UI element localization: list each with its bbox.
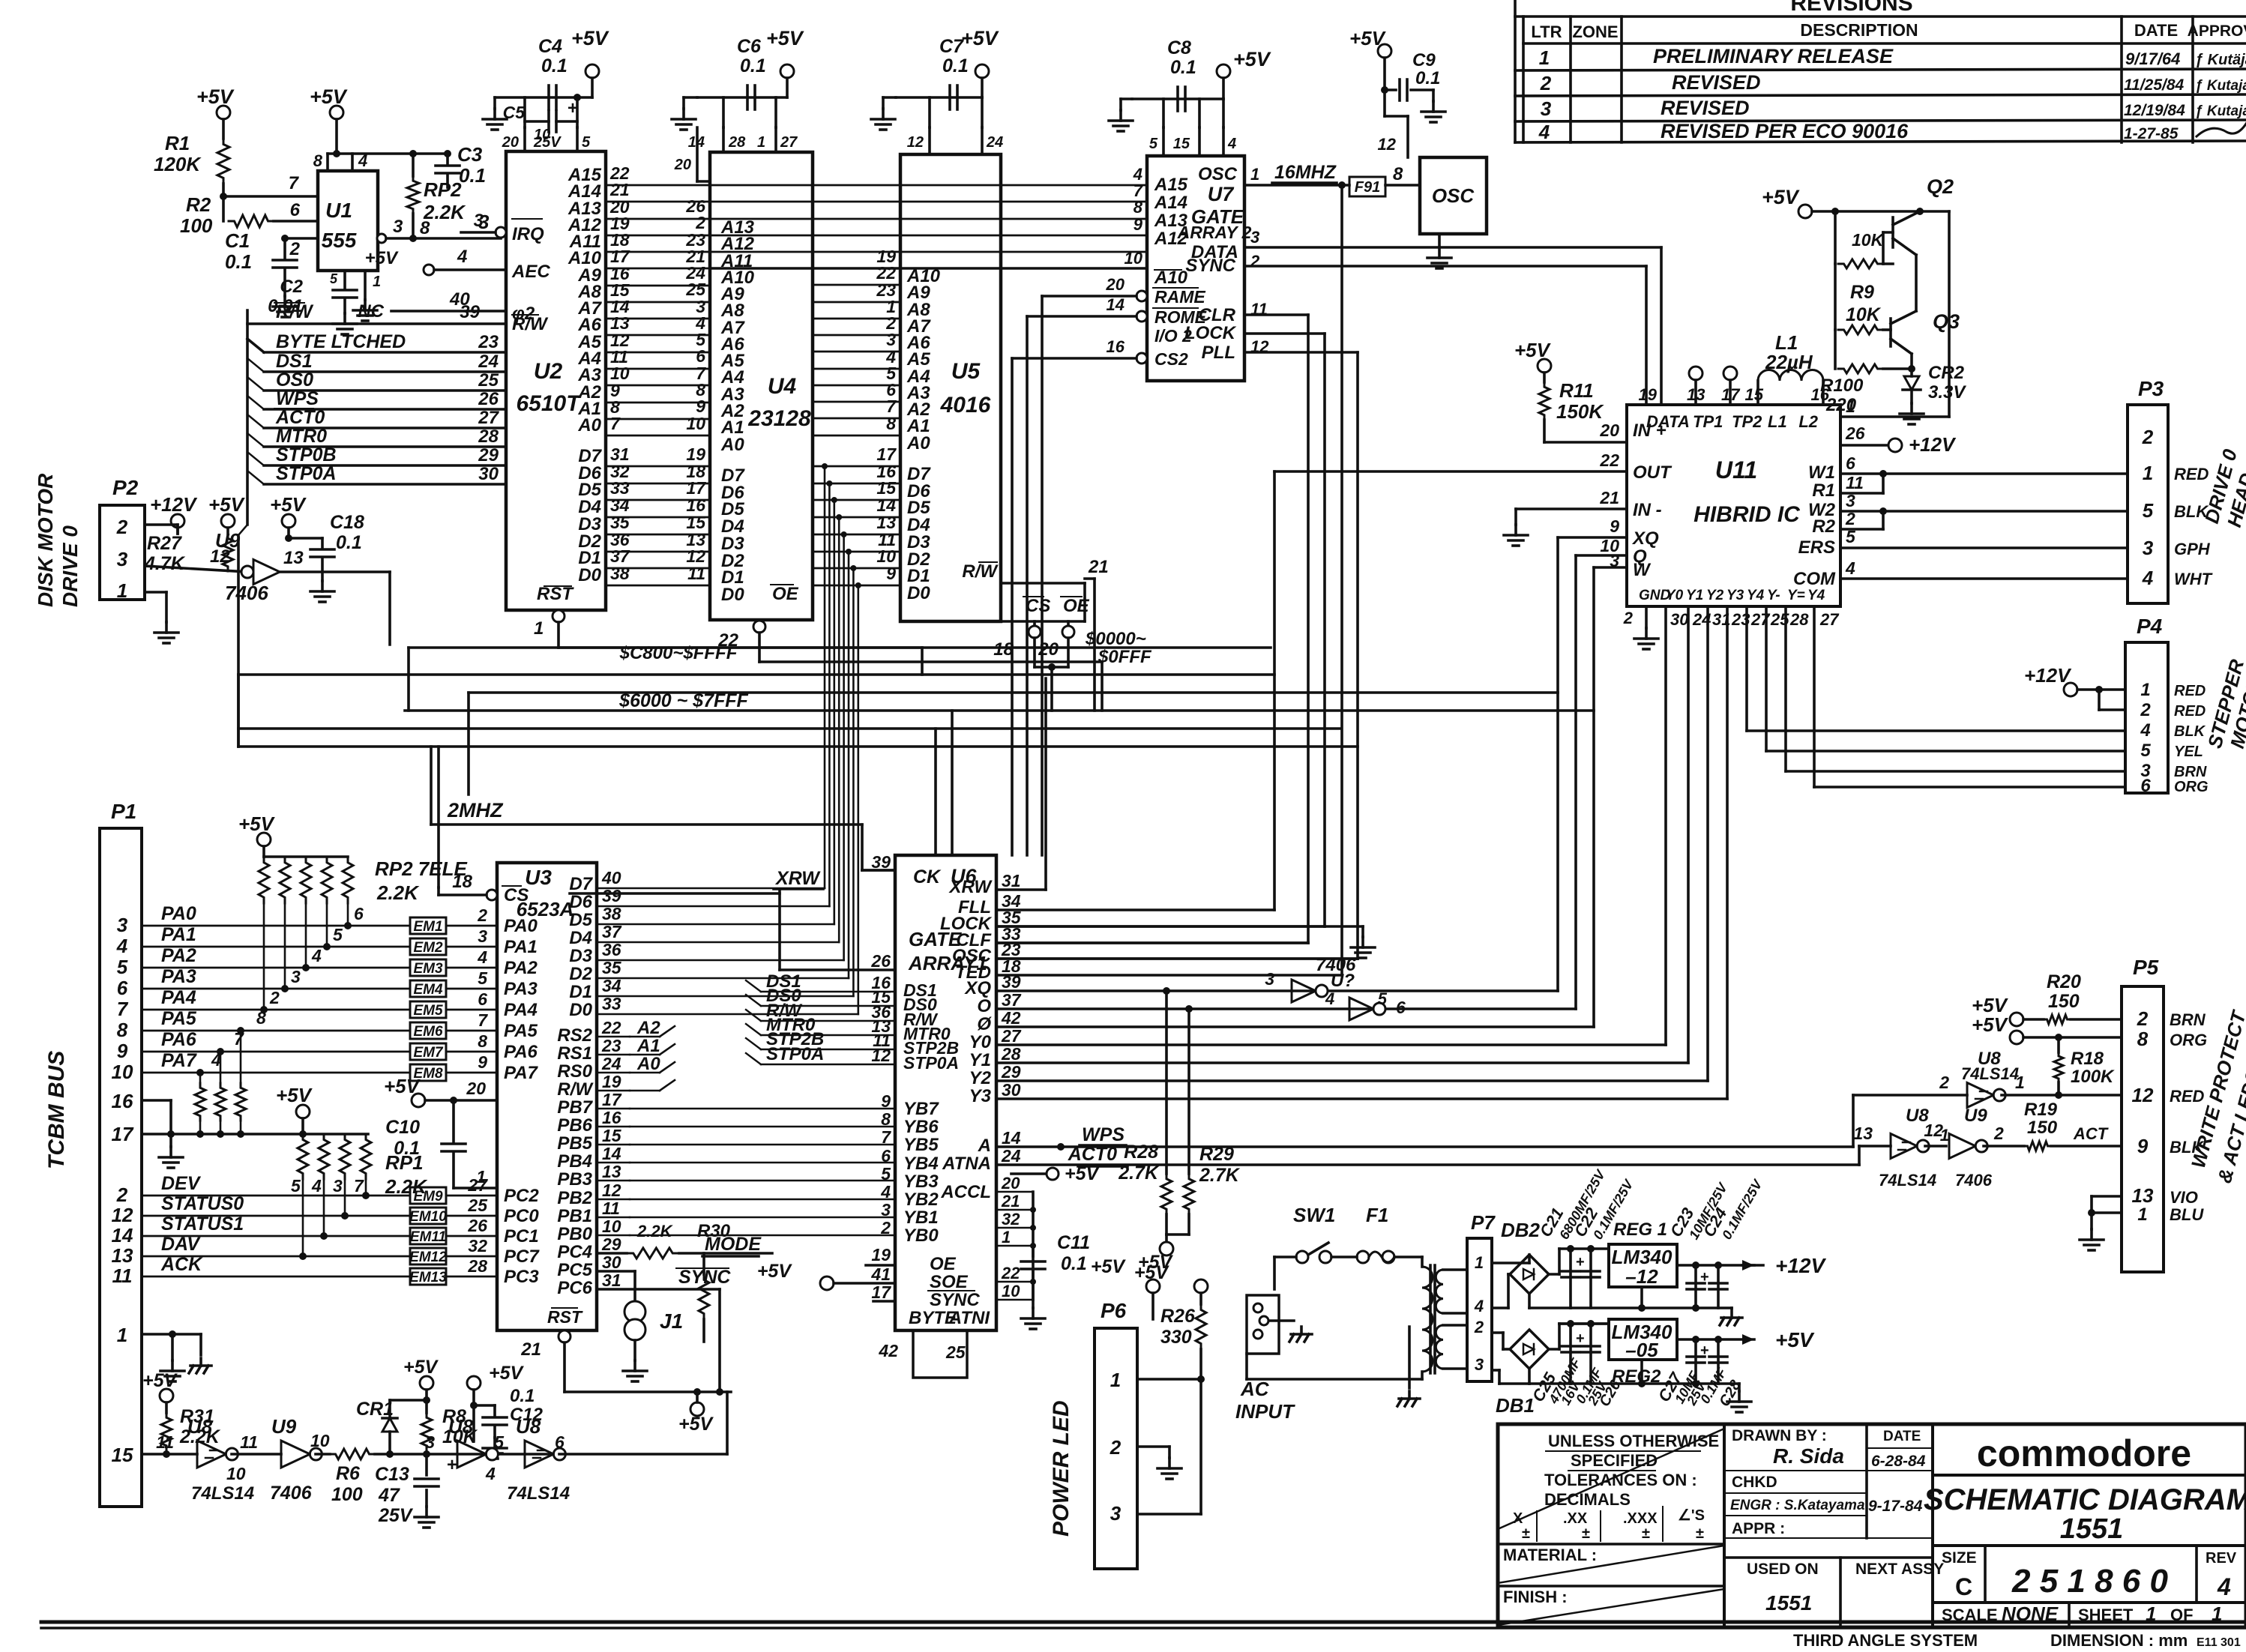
- svg-text:16MHZ: 16MHZ: [1274, 162, 1337, 183]
- svg-text:DISK MOTOR: DISK MOTOR: [34, 473, 57, 607]
- wire U6 Y1: [996, 1061, 1688, 1064]
- svg-text:28: 28: [728, 134, 746, 151]
- wire addr A1 bus U4-U5: [813, 417, 900, 420]
- svg-text:5: 5: [494, 1432, 505, 1452]
- svg-text:1: 1: [117, 579, 127, 602]
- svg-text:P6: P6: [1101, 1299, 1127, 1322]
- wire data D6 bus U2-U4: [606, 483, 710, 485]
- svg-text:5: 5: [478, 968, 488, 988]
- svg-text:R9: R9: [1850, 282, 1874, 303]
- +5V C12: [467, 1376, 481, 1390]
- svg-text:YEL: YEL: [2174, 744, 2203, 760]
- svg-text:PC2: PC2: [504, 1186, 539, 1206]
- svg-text:ƒ Kutaja…: ƒ Kutaja…: [2195, 78, 2246, 94]
- svg-text:R2: R2: [1812, 516, 1835, 537]
- svg-text:OE: OE: [772, 584, 799, 604]
- svg-text:DRIVE 0: DRIVE 0: [58, 525, 82, 607]
- svg-text:D5: D5: [569, 910, 592, 930]
- svg-text:6510T: 6510T: [516, 391, 582, 416]
- wire long bus 948: [405, 709, 1594, 712]
- svg-text:11: 11: [156, 1432, 174, 1452]
- wire addr A6 bus U4-U5: [813, 334, 900, 337]
- wire RP2 tap 2: [305, 903, 307, 968]
- inverter U9 7406 act: [1925, 1145, 1946, 1148]
- svg-text:13: 13: [283, 548, 304, 568]
- svg-text:15: 15: [1173, 136, 1190, 152]
- svg-text:1: 1: [1110, 1369, 1121, 1391]
- svg-text:5: 5: [2140, 741, 2151, 761]
- svg-text:7406: 7406: [270, 1483, 313, 1504]
- svg-text:30: 30: [1670, 610, 1689, 629]
- svg-text:AEC: AEC: [511, 262, 550, 282]
- svg-text:11: 11: [687, 564, 705, 583]
- svg-text:commodore: commodore: [1977, 1432, 2191, 1474]
- svg-text:XRW: XRW: [774, 868, 821, 889]
- svg-text:4: 4: [1325, 989, 1334, 1008]
- svg-text:PB4: PB4: [557, 1151, 592, 1172]
- svg-text:D0: D0: [907, 583, 930, 603]
- svg-text:EM6: EM6: [413, 1024, 443, 1040]
- svg-text:9: 9: [1133, 215, 1143, 234]
- svg-text:STP0A: STP0A: [766, 1044, 824, 1064]
- svg-text:BLU: BLU: [2170, 1205, 2204, 1224]
- svg-text:–12: –12: [1625, 1265, 1658, 1288]
- svg-text:330: 330: [1160, 1327, 1192, 1348]
- wire PA3 line P1-EM-U3: [142, 988, 410, 990]
- svg-text:+5V: +5V: [1972, 1013, 2009, 1036]
- svg-text:26: 26: [870, 951, 891, 971]
- svg-text:2: 2: [1110, 1436, 1122, 1459]
- svg-text:6: 6: [290, 200, 301, 220]
- svg-text:Q2: Q2: [1927, 175, 1954, 198]
- svg-text:3: 3: [1610, 551, 1619, 570]
- svg-text:+: +: [567, 98, 578, 118]
- svg-text:6: 6: [1396, 998, 1406, 1017]
- svg-text:22µH: 22µH: [1765, 351, 1813, 373]
- +5V R8: [420, 1376, 433, 1390]
- svg-text:+5V: +5V: [1091, 1256, 1127, 1277]
- wire DEV line P1-EM-U3: [142, 1195, 410, 1197]
- wire U6 CLF: [996, 941, 1308, 944]
- svg-text:5: 5: [117, 956, 128, 978]
- wire WPS control line: [264, 408, 506, 411]
- svg-text:EM5: EM5: [413, 1003, 443, 1019]
- svg-text:3: 3: [1846, 491, 1855, 510]
- svg-text:Y0: Y0: [969, 1032, 992, 1052]
- svg-text:EM10: EM10: [409, 1209, 447, 1225]
- wire data D2 bus U4-U5: [813, 551, 900, 553]
- OSC top pin: [1406, 116, 1409, 157]
- svg-text:15: 15: [1745, 385, 1764, 404]
- svg-text:SCALE: SCALE: [1942, 1606, 1998, 1624]
- +5V supply U1: [330, 106, 343, 119]
- resistor R11 150K: [1538, 359, 1551, 373]
- svg-text:U4: U4: [768, 374, 797, 399]
- wire U6 Y0: [996, 1043, 1666, 1046]
- svg-text:16: 16: [112, 1090, 133, 1112]
- svg-text:DB1: DB1: [1496, 1394, 1535, 1417]
- wire RP2 tap 0: [263, 903, 265, 1010]
- svg-text:U5: U5: [951, 359, 981, 384]
- svg-text:0.1: 0.1: [394, 1138, 420, 1159]
- svg-text:0.1: 0.1: [225, 250, 252, 273]
- svg-text:+5V: +5V: [270, 493, 307, 516]
- svg-text:–05: –05: [1625, 1339, 1658, 1361]
- svg-text:STP0A: STP0A: [276, 463, 337, 484]
- svg-text:3: 3: [1250, 228, 1259, 247]
- wire data D7 bus U4-U5: [813, 465, 900, 468]
- svg-text:PA4: PA4: [504, 1000, 538, 1020]
- svg-text:0.1: 0.1: [740, 55, 766, 76]
- svg-text:2: 2: [269, 988, 280, 1007]
- +5V near P6: [1146, 1279, 1160, 1293]
- svg-text:RP2 7ELE: RP2 7ELE: [375, 857, 467, 880]
- svg-text:24: 24: [601, 1054, 621, 1073]
- svg-text:8: 8: [1133, 198, 1143, 217]
- svg-text:U8: U8: [516, 1415, 541, 1438]
- svg-text:4: 4: [1538, 121, 1550, 143]
- transformer sec2: [1436, 1325, 1443, 1369]
- svg-text:74LS14: 74LS14: [1961, 1064, 2019, 1083]
- svg-text:A0: A0: [720, 435, 744, 455]
- svg-text:8: 8: [881, 1109, 891, 1129]
- svg-text:$0FFF: $0FFF: [1098, 647, 1152, 667]
- wire U6 TED: [996, 974, 1342, 977]
- svg-text:YB6: YB6: [903, 1117, 939, 1137]
- svg-text:R29: R29: [1199, 1144, 1234, 1165]
- svg-text:+5V: +5V: [678, 1414, 714, 1435]
- svg-text:YB3: YB3: [903, 1172, 939, 1192]
- svg-text:21: 21: [1001, 1192, 1020, 1211]
- svg-text:5: 5: [333, 925, 343, 944]
- wire P6 pin3: [1137, 1513, 1201, 1516]
- svg-text:4.7K: 4.7K: [144, 553, 186, 574]
- capacitor C22: [1589, 1249, 1592, 1308]
- svg-text:Y1: Y1: [969, 1050, 991, 1070]
- wire data D4 bus U2-U4: [606, 516, 710, 519]
- svg-text:OF: OF: [2170, 1606, 2194, 1624]
- svg-text:THIRD ANGLE SYSTEM: THIRD ANGLE SYSTEM: [1793, 1631, 1978, 1650]
- svg-text:2: 2: [1250, 252, 1260, 271]
- svg-text:SPECIFIED: SPECIFIED: [1571, 1451, 1658, 1470]
- svg-text:14: 14: [1002, 1128, 1021, 1148]
- resistor 10K base Q2: [1834, 211, 1837, 264]
- svg-text:5: 5: [291, 1176, 301, 1196]
- svg-text:L1: L1: [1768, 412, 1787, 431]
- svg-text:UNLESS OTHERWISE: UNLESS OTHERWISE: [1548, 1432, 1719, 1450]
- svg-text:U7: U7: [1208, 183, 1235, 205]
- svg-text:+5V: +5V: [403, 1357, 439, 1378]
- svg-text:40: 40: [601, 868, 621, 887]
- wire U6 left R/W: [761, 1020, 895, 1022]
- wire address A1 bus: [606, 418, 710, 420]
- svg-text:NC: NC: [358, 301, 384, 322]
- wire U6 Oslash: [996, 1025, 1594, 1028]
- svg-text:1: 1: [2146, 1603, 2156, 1625]
- svg-text:5: 5: [1378, 989, 1388, 1008]
- wire addr A4 bus U4-U5: [813, 368, 900, 370]
- svg-text:2: 2: [116, 516, 128, 538]
- svg-text:100: 100: [331, 1484, 363, 1505]
- svg-text:100K: 100K: [2071, 1067, 2115, 1087]
- svg-text:32: 32: [468, 1236, 487, 1255]
- svg-text:2: 2: [1474, 1318, 1484, 1336]
- svg-text:1: 1: [1940, 1126, 1949, 1145]
- svg-text:9: 9: [2137, 1135, 2149, 1157]
- svg-text:2.2K: 2.2K: [376, 881, 420, 904]
- wire data D4 bus U4-U5: [813, 516, 900, 519]
- node R1/pin7: [220, 193, 227, 200]
- U7 pin CS2: [1136, 353, 1147, 364]
- svg-text:PA0: PA0: [161, 903, 196, 924]
- svg-text:Y4: Y4: [1747, 588, 1765, 603]
- wire data D7 bus U2-U4: [606, 465, 710, 468]
- wire ACT0 control line: [264, 426, 506, 429]
- svg-text:150K: 150K: [1556, 400, 1604, 423]
- inverter U? 7406 a: [1292, 980, 1316, 1002]
- +5V supply for R1: [217, 106, 230, 119]
- U11 bottom extra verticals: [1745, 606, 1748, 731]
- svg-text:5: 5: [2143, 499, 2154, 522]
- svg-text:SCHEMATIC DIAGRAM,: SCHEMATIC DIAGRAM,: [1924, 1483, 2246, 1516]
- svg-text:P4: P4: [2137, 615, 2163, 638]
- svg-text:10: 10: [1124, 249, 1143, 268]
- svg-text:6: 6: [881, 1146, 891, 1166]
- op IC U1 555 box: [318, 171, 378, 271]
- zener CR2 3.3V: [1908, 365, 1915, 373]
- wire RP1 tap 1: [323, 1179, 325, 1236]
- svg-text:22: 22: [1599, 450, 1619, 470]
- svg-text:13: 13: [1853, 1124, 1873, 1143]
- svg-text:XRW: XRW: [948, 877, 993, 897]
- diode CR1: [386, 1450, 394, 1458]
- svg-text:1: 1: [117, 1324, 127, 1346]
- svg-text:13: 13: [112, 1244, 133, 1267]
- capacitor C10 0.1: [452, 1100, 455, 1142]
- svg-text:2: 2: [289, 239, 301, 259]
- svg-text:30: 30: [1002, 1080, 1021, 1100]
- svg-text:ATNA: ATNA: [942, 1154, 991, 1174]
- svg-text:34: 34: [602, 976, 621, 995]
- svg-text:ZONE: ZONE: [1572, 22, 1618, 41]
- svg-text:DAV: DAV: [161, 1234, 201, 1255]
- svg-text:16: 16: [1107, 337, 1125, 356]
- svg-text:35: 35: [602, 958, 622, 977]
- oscillator OSC box: [1420, 157, 1487, 234]
- +5V supply a: [221, 514, 235, 528]
- svg-text:TOLERANCES ON :: TOLERANCES ON :: [1544, 1471, 1697, 1489]
- svg-text:PA4: PA4: [161, 987, 196, 1008]
- wire vertical trunks mid: [437, 747, 440, 887]
- svg-text:20: 20: [466, 1079, 486, 1098]
- U1 output wire pin3: [377, 234, 386, 243]
- svg-text:U1: U1: [325, 199, 352, 222]
- svg-text:PA7: PA7: [161, 1050, 197, 1071]
- svg-text:4016: 4016: [940, 393, 991, 417]
- svg-text:2: 2: [2140, 700, 2151, 720]
- +12V supply: [171, 514, 184, 528]
- svg-text:+5V: +5V: [757, 1261, 793, 1282]
- svg-text:+5V: +5V: [1762, 186, 1800, 208]
- svg-text:1551: 1551: [2060, 1513, 2124, 1545]
- svg-text:R/W: R/W: [557, 1079, 594, 1100]
- svg-text:PA3: PA3: [504, 979, 538, 999]
- wire U6 LOCK gnd: [996, 925, 1325, 928]
- tpi U3 6523A box: [497, 863, 597, 1330]
- ground U2 bypass: [493, 97, 496, 109]
- svg-text:X: X: [1513, 1510, 1523, 1527]
- svg-text:DESCRIPTION: DESCRIPTION: [1800, 20, 1918, 40]
- svg-text:24: 24: [1001, 1146, 1021, 1166]
- svg-text:R6: R6: [336, 1463, 361, 1484]
- wire RP2 tap 3: [326, 903, 328, 947]
- svg-text:STP0A: STP0A: [903, 1053, 959, 1073]
- svg-text:REV: REV: [2206, 1550, 2237, 1567]
- svg-text:OSC: OSC: [1198, 164, 1238, 184]
- cpu U2 6510T box: [506, 151, 606, 610]
- wire long bus 996: [238, 745, 1358, 748]
- svg-text:+5V: +5V: [238, 813, 276, 835]
- svg-text:PA5: PA5: [504, 1021, 538, 1041]
- wire PA1 line P1-EM-U3: [142, 946, 410, 948]
- svg-text:NEXT ASSY: NEXT ASSY: [1855, 1561, 1944, 1578]
- wire data D0 bus U2-U4: [606, 585, 710, 587]
- testpoint TP1: [1689, 367, 1702, 380]
- svg-text:U8: U8: [1906, 1106, 1929, 1126]
- svg-text:12/19/84: 12/19/84: [2124, 102, 2185, 119]
- svg-text:8: 8: [117, 1019, 128, 1041]
- jumper J1: [624, 1301, 645, 1322]
- svg-text:7: 7: [610, 414, 621, 433]
- svg-text:150: 150: [2027, 1118, 2058, 1138]
- svg-text:3: 3: [291, 967, 301, 986]
- svg-text:P7: P7: [1471, 1211, 1496, 1234]
- svg-text:25: 25: [467, 1196, 488, 1215]
- svg-text:10: 10: [112, 1061, 133, 1083]
- svg-text:C4: C4: [538, 36, 562, 57]
- svg-text:ACT0: ACT0: [275, 407, 325, 428]
- svg-text:7: 7: [478, 1010, 488, 1030]
- svg-text:10: 10: [310, 1431, 330, 1450]
- svg-text:C: C: [1955, 1573, 1972, 1600]
- svg-text:7406: 7406: [225, 582, 268, 604]
- svg-text:PB7: PB7: [557, 1097, 593, 1118]
- svg-text:39: 39: [871, 852, 891, 872]
- svg-text:6: 6: [354, 904, 364, 923]
- resistor R29 2.7K: [1187, 1009, 1190, 1174]
- wire addr A8 bus U4-U5: [813, 301, 900, 304]
- inverter U8 74LS14 wps: [1967, 1083, 1993, 1108]
- svg-text:20: 20: [674, 157, 691, 173]
- wire data D1 bus U4-U5: [813, 567, 900, 570]
- svg-text:12: 12: [602, 1181, 621, 1200]
- svg-text:74LS14: 74LS14: [191, 1483, 254, 1504]
- svg-text:0.1: 0.1: [1170, 57, 1196, 78]
- wire data bus verticals: [824, 466, 826, 888]
- +5V for Q2: [1798, 205, 1812, 218]
- svg-text:11: 11: [112, 1264, 133, 1287]
- svg-text:PA5: PA5: [161, 1008, 197, 1029]
- svg-text:RST: RST: [537, 584, 574, 604]
- svg-text:8: 8: [420, 218, 430, 238]
- svg-text:D2: D2: [569, 964, 592, 984]
- wire address A4 bus: [606, 368, 710, 370]
- hybrid U11 box: [1627, 405, 1840, 606]
- svg-text:F1: F1: [1366, 1204, 1388, 1226]
- svg-text:150: 150: [2048, 991, 2080, 1012]
- ground U5 bypass: [883, 96, 896, 99]
- svg-text:USED ON: USED ON: [1747, 1561, 1819, 1578]
- +5V pin8: [2010, 1031, 2023, 1044]
- U1 top rail: [328, 152, 448, 155]
- svg-text:4: 4: [2217, 1573, 2231, 1600]
- transformer gnd: [1408, 1327, 1411, 1388]
- wire RP2 tap 1: [284, 903, 286, 989]
- svg-text:1551: 1551: [1765, 1591, 1812, 1615]
- svg-text:+5V: +5V: [1775, 1328, 1815, 1351]
- svg-text:ƒ Kutäja…: ƒ Kutäja…: [2195, 52, 2246, 68]
- resistor RP2e 2.2K pullup: [412, 154, 415, 176]
- svg-text:28: 28: [478, 426, 499, 447]
- svg-text:7406: 7406: [1955, 1171, 1993, 1190]
- svg-text:ORG: ORG: [2174, 779, 2209, 795]
- svg-text:PB2: PB2: [557, 1188, 592, 1208]
- gate array U7 box: [1147, 156, 1244, 381]
- svg-text:YB0: YB0: [903, 1226, 939, 1246]
- svg-text:$C800~$FFFF: $C800~$FFFF: [619, 643, 738, 663]
- svg-text:16: 16: [602, 1108, 621, 1127]
- wire address A5 bus: [606, 352, 710, 354]
- svg-text:1: 1: [2140, 680, 2150, 700]
- svg-text:4: 4: [2142, 567, 2154, 589]
- ram U5 4016 box: [900, 154, 1001, 621]
- svg-text:EM7: EM7: [413, 1045, 444, 1061]
- wire long bus 924: [469, 691, 1558, 694]
- svg-text:RED: RED: [2170, 1087, 2205, 1106]
- svg-text:+5V: +5V: [1514, 339, 1552, 361]
- svg-text:OE: OE: [1063, 596, 1090, 616]
- svg-text:OUT: OUT: [1633, 462, 1673, 483]
- svg-text:COM: COM: [1793, 569, 1836, 589]
- svg-text:+5V: +5V: [196, 85, 235, 108]
- svg-text:8: 8: [1393, 164, 1403, 184]
- svg-text:PA1: PA1: [161, 924, 196, 945]
- svg-text:38: 38: [602, 904, 621, 923]
- svg-text:1: 1: [534, 618, 544, 639]
- wire decode verticals U6 top: [951, 711, 954, 855]
- svg-text:24: 24: [986, 134, 1003, 151]
- svg-text:25V: 25V: [378, 1505, 414, 1526]
- svg-text:100: 100: [180, 214, 213, 237]
- svg-text:7: 7: [234, 1029, 244, 1049]
- svg-text:NONE: NONE: [2002, 1603, 2059, 1625]
- svg-text:CK: CK: [913, 866, 942, 887]
- svg-text:39: 39: [602, 886, 621, 905]
- svg-text:19: 19: [602, 1072, 621, 1091]
- capacitor C28: [1717, 1339, 1720, 1384]
- wire BYTE LTCHED control line: [264, 351, 506, 354]
- svg-text:1: 1: [1539, 46, 1550, 69]
- svg-text:ARRAY 2: ARRAY 2: [1177, 223, 1252, 242]
- U2 pin IRQ: [496, 227, 506, 238]
- svg-text:$0000~: $0000~: [1085, 629, 1146, 649]
- svg-text:9: 9: [881, 1091, 891, 1111]
- svg-text:PC0: PC0: [504, 1206, 539, 1226]
- connector P2: [100, 505, 145, 600]
- P4 +12V: [2064, 683, 2077, 696]
- wire long bus 972: [238, 727, 1341, 730]
- svg-text:4: 4: [880, 1182, 891, 1202]
